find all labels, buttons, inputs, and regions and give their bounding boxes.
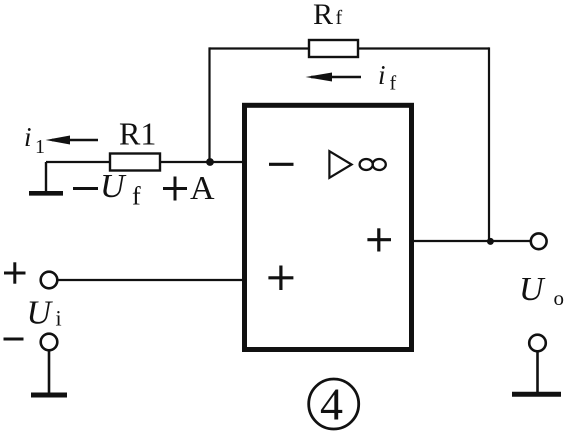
svg-text:U: U bbox=[519, 271, 546, 308]
svg-text:o: o bbox=[554, 286, 565, 310]
svg-text:U: U bbox=[100, 168, 127, 205]
label -Uf bbox=[73, 168, 141, 211]
input lower terminal circle bbox=[41, 334, 58, 351]
op-amp gain triangle bbox=[329, 151, 351, 178]
resistor R1 bbox=[110, 154, 160, 171]
wire feedback top right segment bbox=[358, 47, 489, 49]
svg-text:R1: R1 bbox=[119, 116, 156, 152]
svg-text:R: R bbox=[313, 0, 333, 31]
wire non-inverting input bbox=[57, 279, 244, 281]
infinity symbol bbox=[360, 159, 386, 170]
label +A bbox=[163, 170, 215, 207]
resistor Rf bbox=[309, 40, 358, 57]
svg-text:U: U bbox=[27, 295, 54, 332]
wire output bbox=[412, 240, 531, 242]
svg-text:A: A bbox=[190, 170, 215, 207]
node A junction dot bbox=[206, 158, 214, 166]
input plus sign bbox=[4, 262, 26, 283]
svg-text:i: i bbox=[56, 306, 62, 331]
svg-text:f: f bbox=[132, 182, 141, 211]
svg-text:1: 1 bbox=[35, 136, 45, 158]
input minus sign bbox=[4, 338, 24, 341]
input upper terminal circle bbox=[41, 272, 58, 289]
ground lower right bbox=[512, 351, 561, 394]
wire feedback top left segment bbox=[210, 47, 310, 49]
svg-text:i: i bbox=[378, 60, 386, 90]
svg-text:f: f bbox=[390, 73, 397, 95]
ground lower left bbox=[31, 350, 67, 395]
wire feedback left vertical bbox=[208, 47, 210, 162]
output lower terminal circle bbox=[529, 335, 546, 352]
ground left of R1 bbox=[29, 162, 63, 193]
op-amp output plus sign bbox=[367, 228, 391, 251]
svg-text:f: f bbox=[336, 7, 343, 29]
output terminal circle bbox=[531, 233, 547, 249]
output junction dot bbox=[487, 238, 494, 245]
current arrow i1 bbox=[46, 136, 99, 145]
op-amp non-inverting input plus sign bbox=[268, 266, 293, 291]
current arrow if bbox=[306, 73, 362, 82]
svg-text:i: i bbox=[24, 122, 32, 152]
svg-text:4: 4 bbox=[320, 379, 343, 430]
figure number circle 4 bbox=[309, 379, 359, 429]
wire feedback right vertical bbox=[488, 47, 490, 241]
op-amp inverting input minus sign bbox=[269, 163, 294, 166]
wire inverting input bbox=[46, 161, 244, 163]
op-amp U1 box bbox=[245, 105, 412, 349]
